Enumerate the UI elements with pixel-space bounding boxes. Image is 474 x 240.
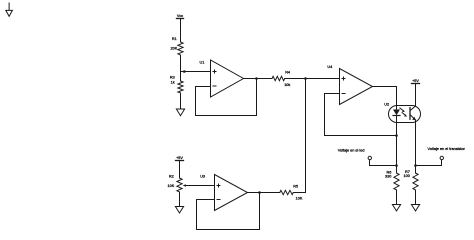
junction test point led / R6 bbox=[395, 164, 398, 167]
wire U1 feedback (inverting input to output) bbox=[196, 79, 257, 116]
svg-text:+5V: +5V bbox=[176, 156, 183, 160]
resistor R4 bbox=[272, 76, 285, 80]
junction U3 output/feedback bbox=[258, 191, 261, 194]
power Vcc bbox=[177, 14, 184, 19]
wire R6 to ground bbox=[396, 190, 398, 205]
junction R4/R5/U4+ bbox=[304, 77, 307, 80]
test point Voltaje en el led bbox=[368, 156, 396, 165]
wire R4 to U4 noninverting input bbox=[285, 78, 340, 80]
svg-text:Vcc: Vcc bbox=[177, 14, 183, 18]
test point Voltaje en el transistor bbox=[416, 156, 444, 165]
wire R2 wiper to U3 noninverting input bbox=[186, 185, 215, 187]
power +5V (potentiometer R2) bbox=[176, 156, 184, 161]
svg-text:10K: 10K bbox=[296, 197, 303, 201]
ground below R2 bbox=[175, 207, 183, 214]
junction U4 feedback / LED cathode bbox=[395, 134, 398, 137]
wire U3 feedback (inverting input to output) bbox=[197, 193, 260, 230]
resistor R6 bbox=[394, 173, 399, 190]
svg-text:R2: R2 bbox=[169, 174, 174, 178]
ground GND (floating, top-left) bbox=[6, 3, 13, 16]
wire node to U1 noninverting input bbox=[181, 71, 211, 73]
svg-text:R1: R1 bbox=[172, 37, 177, 41]
svg-text:U1: U1 bbox=[200, 61, 205, 65]
wire U1 output to R4 bbox=[244, 78, 273, 80]
power +5V (transistor collector) bbox=[412, 79, 420, 84]
op-amp U1 bbox=[211, 60, 244, 97]
optocoupler U2 bbox=[389, 106, 421, 123]
svg-text:10k: 10k bbox=[284, 83, 290, 87]
wire +5V to transistor collector bbox=[415, 84, 417, 107]
wire transistor emitter down to R7 bbox=[415, 120, 417, 173]
svg-text:U2: U2 bbox=[384, 102, 389, 106]
wire U4 output to optocoupler LED bbox=[373, 87, 397, 110]
op-amp U4 bbox=[340, 69, 373, 105]
resistor R7 bbox=[413, 173, 418, 190]
op-amp U3 bbox=[215, 175, 248, 211]
wire U4 feedback (inverting input to LED cathode node) bbox=[325, 94, 397, 136]
resistor R3 bbox=[178, 81, 183, 93]
wire R5 to junction column bbox=[293, 192, 305, 194]
svg-text:Voltaje en el led: Voltaje en el led bbox=[338, 148, 365, 152]
wire +5V to R2 bbox=[179, 161, 181, 179]
svg-text:+5V: +5V bbox=[412, 79, 419, 83]
svg-text:R3: R3 bbox=[170, 76, 175, 80]
resistor R1 bbox=[178, 42, 183, 55]
svg-text:Voltaje en el transistor: Voltaje en el transistor bbox=[428, 147, 466, 151]
svg-text:R4: R4 bbox=[285, 71, 290, 75]
ground below R6 bbox=[392, 205, 400, 212]
svg-text:R5: R5 bbox=[293, 184, 298, 188]
wire R7 to ground bbox=[415, 190, 417, 205]
junction test point transistor / R7 bbox=[414, 164, 417, 167]
junction U1 output/feedback bbox=[255, 77, 258, 80]
svg-text:1k: 1k bbox=[171, 80, 175, 84]
wire R2 to ground bbox=[179, 192, 181, 207]
svg-text:20K: 20K bbox=[171, 47, 178, 51]
ground below R3 bbox=[176, 109, 184, 116]
wire junction down to R5 bbox=[305, 79, 307, 193]
wire U3 output to R5 bbox=[248, 192, 280, 194]
svg-text:U3: U3 bbox=[200, 174, 205, 178]
svg-text:100: 100 bbox=[404, 174, 410, 178]
potentiometer R2 bbox=[177, 178, 186, 192]
wire R3 to ground bbox=[180, 93, 182, 109]
svg-text:10K: 10K bbox=[168, 184, 175, 188]
svg-text:330: 330 bbox=[385, 175, 391, 179]
ground below R7 bbox=[411, 205, 419, 212]
wire R1 to R3 through node bbox=[180, 55, 182, 81]
resistor R5 bbox=[280, 190, 294, 194]
node junction R1/R3/U1+ bbox=[183, 70, 186, 73]
svg-text:U4: U4 bbox=[327, 65, 332, 69]
wire LED cathode down to R6 bbox=[396, 116, 398, 174]
wire Vcc to R1 bbox=[180, 19, 182, 43]
